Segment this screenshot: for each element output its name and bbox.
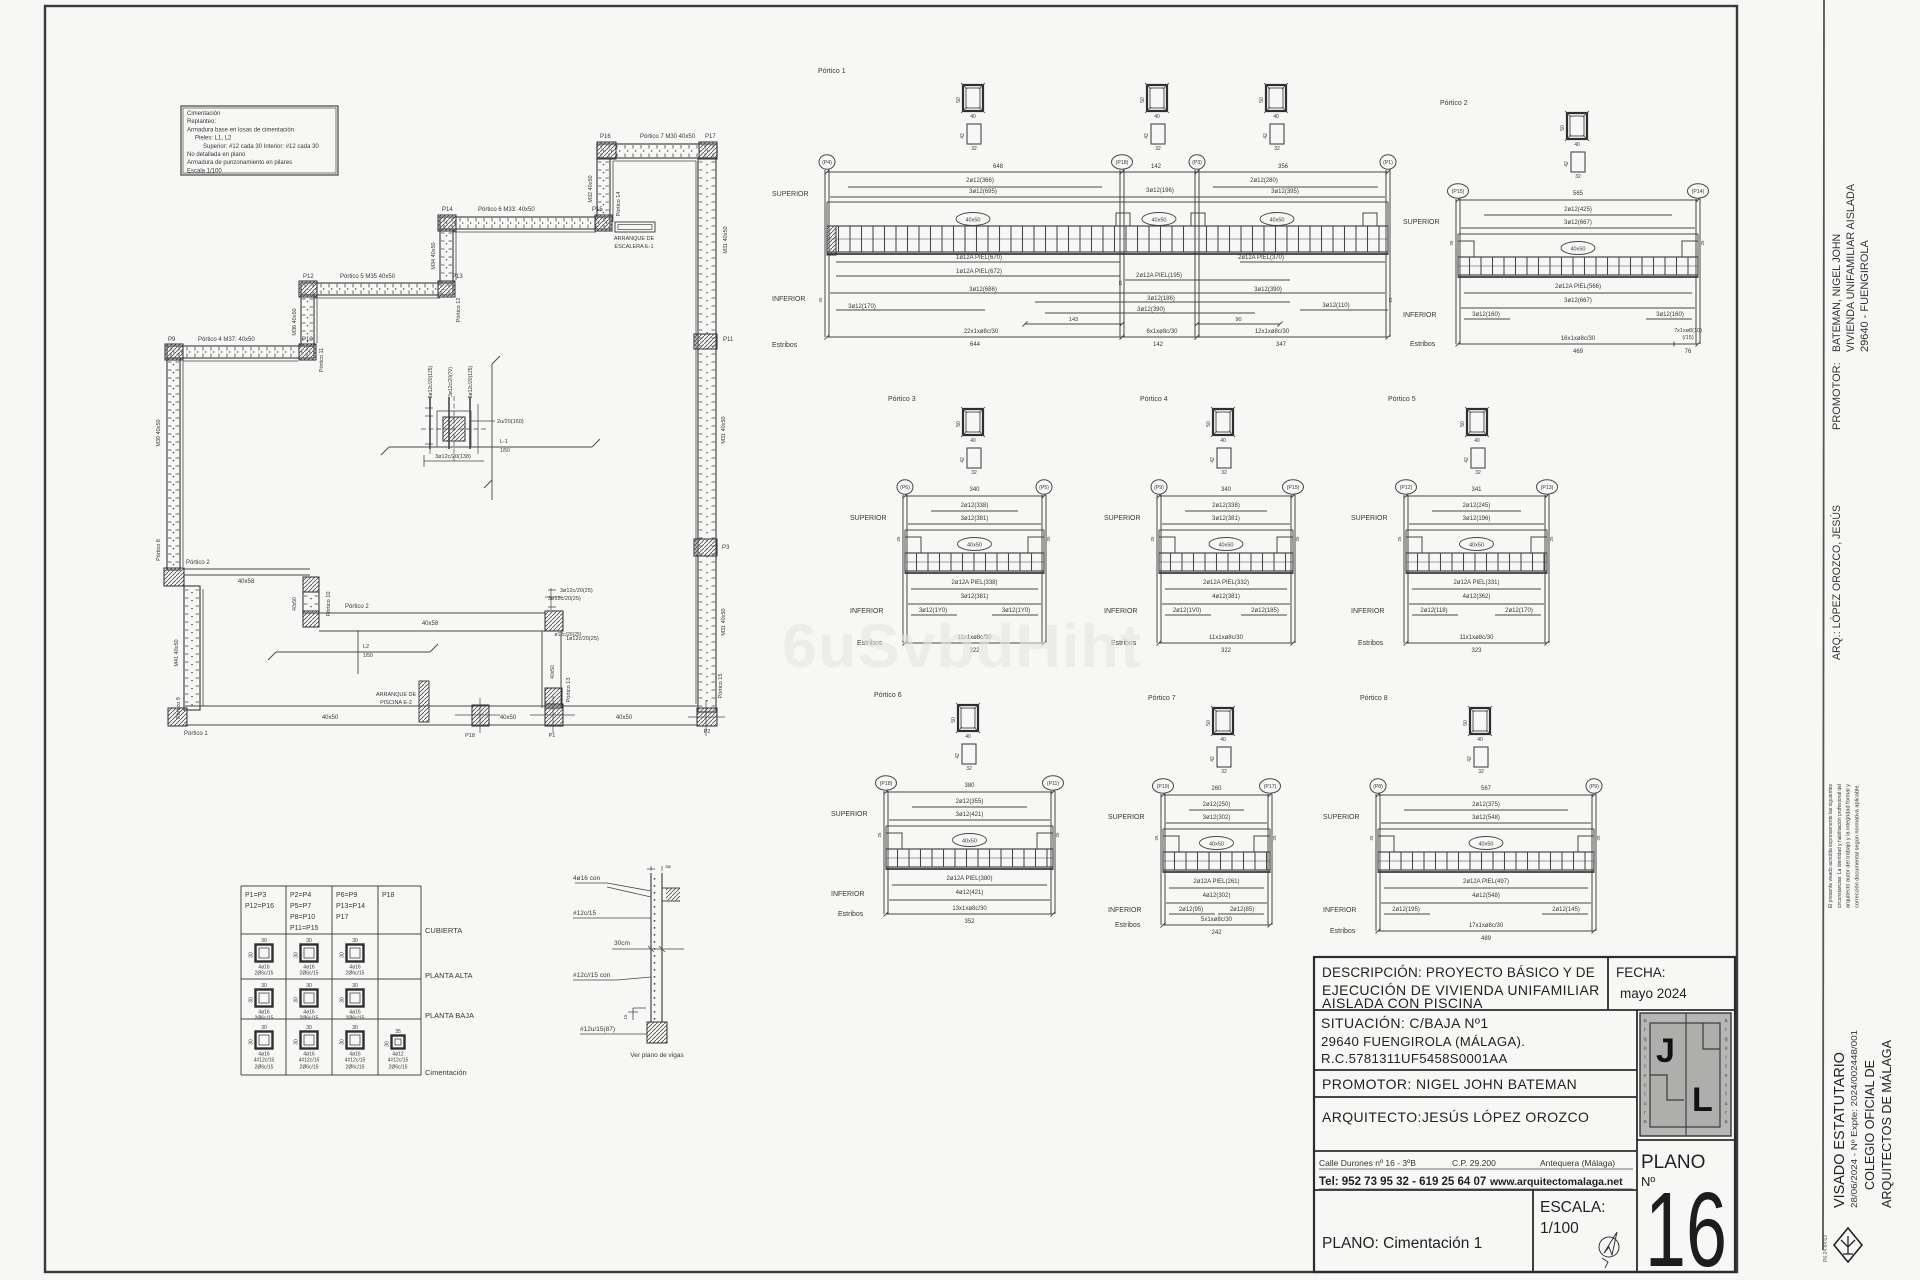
svg-text:(P15): (P15) bbox=[1452, 189, 1465, 195]
svg-text:341: 341 bbox=[1471, 487, 1482, 493]
svg-text:4ø12(381): 4ø12(381) bbox=[1212, 594, 1240, 600]
svg-text:29640 FUENGIROLA (MÁLAGA).: 29640 FUENGIROLA (MÁLAGA). bbox=[1321, 1034, 1525, 1049]
svg-text:CUBIERTA: CUBIERTA bbox=[425, 926, 462, 935]
svg-text:M32 40x50: M32 40x50 bbox=[588, 175, 594, 202]
svg-text:347: 347 bbox=[1276, 342, 1287, 348]
svg-text:Pórtico 13: Pórtico 13 bbox=[566, 678, 572, 703]
svg-text:#12c//15 con: #12c//15 con bbox=[573, 972, 611, 979]
svg-text:25: 25 bbox=[1449, 240, 1454, 246]
svg-text:3ø12(421): 3ø12(421) bbox=[956, 812, 984, 818]
svg-text:40: 40 bbox=[1273, 114, 1279, 120]
svg-text:40x50: 40x50 bbox=[1270, 218, 1285, 224]
svg-text:(P3): (P3) bbox=[1192, 160, 1202, 166]
svg-text:40x58: 40x58 bbox=[238, 579, 255, 585]
svg-text:5x1xø8c/30: 5x1xø8c/30 bbox=[1201, 917, 1233, 923]
svg-text:u: u bbox=[1724, 1046, 1727, 1052]
svg-text:3ø12(170): 3ø12(170) bbox=[848, 304, 876, 310]
svg-text:16: 16 bbox=[1645, 1171, 1727, 1280]
svg-text:40: 40 bbox=[1220, 737, 1226, 743]
svg-text:3ø12(381): 3ø12(381) bbox=[961, 594, 989, 600]
svg-text:30: 30 bbox=[294, 952, 300, 958]
svg-text:22x1xø8c/30: 22x1xø8c/30 bbox=[964, 329, 999, 335]
svg-text:2ø12A PIEL(497): 2ø12A PIEL(497) bbox=[1463, 879, 1509, 885]
svg-text:P18: P18 bbox=[382, 892, 395, 899]
svg-text:ARQ.: LÓPEZ OROZCO, JESÚS: ARQ.: LÓPEZ OROZCO, JESÚS bbox=[1830, 505, 1843, 660]
svg-text:6x1xø8c/30: 6x1xø8c/30 bbox=[1146, 329, 1178, 335]
svg-text:30: 30 bbox=[261, 1025, 267, 1031]
svg-text:40: 40 bbox=[1154, 114, 1160, 120]
svg-text:40x50: 40x50 bbox=[1469, 543, 1484, 549]
svg-text:(P6): (P6) bbox=[900, 485, 910, 491]
svg-text:q: q bbox=[1724, 1036, 1727, 1042]
svg-text:50: 50 bbox=[1140, 97, 1146, 103]
svg-text:50: 50 bbox=[1206, 421, 1212, 427]
svg-text:13x1xø8c/30: 13x1xø8c/30 bbox=[952, 906, 987, 912]
svg-text:El presente visado acredita ex: El presente visado acredita expresamente… bbox=[1828, 784, 1834, 908]
svg-text:AISLADA CON PISCINA: AISLADA CON PISCINA bbox=[1322, 995, 1483, 1011]
svg-text:30: 30 bbox=[352, 1025, 358, 1031]
svg-text:40x50: 40x50 bbox=[500, 715, 517, 721]
svg-text:INFERIOR: INFERIOR bbox=[831, 891, 864, 898]
svg-text:50: 50 bbox=[1460, 421, 1466, 427]
svg-text:32: 32 bbox=[971, 470, 977, 476]
svg-text:2ø12(250): 2ø12(250) bbox=[1203, 802, 1231, 808]
svg-text:Antequera (Málaga): Antequera (Málaga) bbox=[1540, 1158, 1615, 1168]
svg-text:25: 25 bbox=[1596, 835, 1601, 841]
svg-text:Armadura base en losas de cime: Armadura base en losas de cimentación bbox=[187, 127, 294, 133]
svg-text:SUPERIOR: SUPERIOR bbox=[1323, 814, 1360, 821]
svg-text:VIVIENDA UNIFAMILIAR AISLADA: VIVIENDA UNIFAMILIAR AISLADA bbox=[1845, 183, 1857, 352]
svg-text:2ø12A PIEL(566): 2ø12A PIEL(566) bbox=[1555, 284, 1601, 290]
svg-text:Estribos: Estribos bbox=[1358, 640, 1384, 647]
svg-text:260: 260 bbox=[1211, 786, 1222, 792]
svg-text:P12: P12 bbox=[303, 274, 314, 280]
svg-text:Pórtico 14: Pórtico 14 bbox=[616, 192, 622, 217]
svg-text:40x58: 40x58 bbox=[422, 621, 439, 627]
svg-text:3ø12(196): 3ø12(196) bbox=[1146, 188, 1174, 194]
svg-text:Pórtico 11: Pórtico 11 bbox=[319, 348, 325, 372]
svg-text:(P4): (P4) bbox=[822, 160, 832, 166]
svg-text:30: 30 bbox=[294, 997, 300, 1003]
svg-text:arquitecto autor del trabajo y: arquitecto autor del trabajo y la integr… bbox=[1846, 784, 1852, 908]
svg-text:u: u bbox=[1724, 1101, 1727, 1107]
svg-text:42: 42 bbox=[1144, 133, 1150, 139]
svg-text:2u/20(160): 2u/20(160) bbox=[497, 419, 524, 425]
svg-text:Pórtico 5 M35 40x50: Pórtico 5 M35 40x50 bbox=[340, 274, 396, 280]
svg-text:1ø12A PIEL(670): 1ø12A PIEL(670) bbox=[956, 255, 1002, 261]
svg-text:25: 25 bbox=[1154, 835, 1159, 841]
svg-text:COLEGIO OFICIAL DE: COLEGIO OFICIAL DE bbox=[1862, 1060, 1877, 1190]
svg-text:P8=P10: P8=P10 bbox=[290, 914, 315, 921]
svg-text:3ø12c/20(125): 3ø12c/20(125) bbox=[428, 365, 434, 398]
svg-text:32: 32 bbox=[1221, 470, 1227, 476]
svg-text:q: q bbox=[1643, 1036, 1646, 1042]
svg-text:3ø12(110): 3ø12(110) bbox=[1322, 303, 1349, 309]
svg-text:40x50: 40x50 bbox=[962, 839, 977, 845]
svg-text:32: 32 bbox=[1155, 146, 1161, 152]
svg-text:2ø12A PIEL(370): 2ø12A PIEL(370) bbox=[1238, 255, 1284, 261]
svg-text:(P11): (P11) bbox=[1047, 781, 1060, 787]
svg-text:3ø12(196): 3ø12(196) bbox=[1463, 516, 1491, 522]
svg-text:3ø12(186): 3ø12(186) bbox=[1147, 296, 1175, 302]
svg-text:2ø12A PIEL(331): 2ø12A PIEL(331) bbox=[1453, 580, 1499, 586]
svg-text:(P12): (P12) bbox=[1400, 485, 1413, 491]
svg-text:1/50: 1/50 bbox=[363, 653, 373, 659]
svg-text:(P9): (P9) bbox=[1154, 485, 1164, 491]
svg-text:322: 322 bbox=[1221, 648, 1232, 654]
svg-text:M31 40x50: M31 40x50 bbox=[721, 608, 727, 635]
svg-text:30: 30 bbox=[340, 997, 346, 1003]
svg-text:P3: P3 bbox=[722, 545, 730, 551]
svg-text:2ø12A PIEL(380): 2ø12A PIEL(380) bbox=[946, 876, 992, 882]
svg-text:Pórtico 3: Pórtico 3 bbox=[888, 396, 916, 403]
svg-text:Pórtico 4 M37: 40x50: Pórtico 4 M37: 40x50 bbox=[198, 337, 255, 343]
svg-text:3ø12(667): 3ø12(667) bbox=[1564, 220, 1592, 226]
svg-text:r: r bbox=[1644, 1110, 1646, 1116]
svg-text:42: 42 bbox=[1464, 457, 1470, 463]
svg-text:P2: P2 bbox=[704, 729, 711, 735]
svg-text:SUPERIOR: SUPERIOR bbox=[1351, 515, 1388, 522]
svg-text:SUPERIOR: SUPERIOR bbox=[1403, 219, 1440, 226]
svg-text:25: 25 bbox=[818, 297, 823, 303]
svg-text:648: 648 bbox=[993, 164, 1004, 170]
svg-text:SUPERIOR: SUPERIOR bbox=[831, 811, 868, 818]
svg-text:25: 25 bbox=[877, 832, 882, 838]
svg-text:25: 25 bbox=[1549, 536, 1554, 542]
svg-text:P10: P10 bbox=[302, 337, 313, 343]
svg-text:(P19): (P19) bbox=[1157, 784, 1170, 790]
svg-text:3ø12(381): 3ø12(381) bbox=[961, 516, 989, 522]
svg-text:30: 30 bbox=[306, 1025, 312, 1031]
svg-text:P13=P14: P13=P14 bbox=[336, 903, 365, 910]
svg-text:L-1: L-1 bbox=[500, 439, 508, 445]
svg-text:50: 50 bbox=[1259, 97, 1265, 103]
svg-text:M41 40x50: M41 40x50 bbox=[174, 639, 180, 666]
svg-text:567: 567 bbox=[1481, 786, 1492, 792]
svg-text:42: 42 bbox=[1210, 457, 1216, 463]
svg-text:30: 30 bbox=[385, 1041, 391, 1047]
svg-text:VISADO ESTATUTARIO: VISADO ESTATUTARIO bbox=[1831, 1052, 1848, 1208]
svg-text:76: 76 bbox=[1685, 349, 1692, 355]
svg-text:32: 32 bbox=[1221, 769, 1227, 775]
svg-text:P11=P15: P11=P15 bbox=[290, 925, 319, 932]
svg-text:Pórtico 2: Pórtico 2 bbox=[1440, 100, 1468, 107]
svg-text:INFERIOR: INFERIOR bbox=[1351, 608, 1384, 615]
svg-text:Escala 1/100: Escala 1/100 bbox=[187, 168, 222, 174]
svg-text:Pórtico 6: Pórtico 6 bbox=[874, 692, 902, 699]
svg-text:1/100: 1/100 bbox=[1540, 1220, 1579, 1237]
svg-text:142: 142 bbox=[1151, 164, 1162, 170]
svg-text:30: 30 bbox=[249, 997, 255, 1003]
svg-text:PLANO: PLANO bbox=[1641, 1152, 1705, 1173]
svg-text:PLANO: Cimentación 1: PLANO: Cimentación 1 bbox=[1322, 1235, 1482, 1252]
svg-text:3ø12(302): 3ø12(302) bbox=[1203, 815, 1231, 821]
svg-text:M31 40x50: M31 40x50 bbox=[721, 416, 727, 443]
svg-text:Pórtico 5: Pórtico 5 bbox=[1388, 396, 1416, 403]
svg-text:11x1xø8c/30: 11x1xø8c/30 bbox=[1209, 635, 1244, 641]
svg-text:352: 352 bbox=[964, 919, 975, 925]
svg-text:2Ø6c/15: 2Ø6c/15 bbox=[255, 1065, 274, 1071]
svg-text:ARRANQUE DE: ARRANQUE DE bbox=[376, 692, 417, 698]
svg-text:P17: P17 bbox=[705, 134, 716, 140]
svg-text:2ø12A PIEL(332): 2ø12A PIEL(332) bbox=[1203, 580, 1249, 586]
svg-text:30: 30 bbox=[261, 938, 267, 944]
svg-text:469: 469 bbox=[1573, 349, 1584, 355]
svg-text:242: 242 bbox=[1211, 930, 1222, 936]
svg-text:3ø12(686): 3ø12(686) bbox=[969, 287, 997, 293]
svg-text:M34 40x50: M34 40x50 bbox=[431, 242, 437, 269]
svg-text:SUPERIOR: SUPERIOR bbox=[1104, 515, 1141, 522]
svg-text:PLANTA BAJA: PLANTA BAJA bbox=[425, 1011, 474, 1020]
svg-text:DESCRIPCIÓN: PROYECTO BÁSICO Y: DESCRIPCIÓN: PROYECTO BÁSICO Y DE bbox=[1322, 965, 1595, 980]
svg-text:2Ø6c/15: 2Ø6c/15 bbox=[255, 1016, 274, 1022]
svg-text:C.P. 29.200: C.P. 29.200 bbox=[1452, 1158, 1496, 1168]
svg-text:2ø12(1V0): 2ø12(1V0) bbox=[1173, 608, 1201, 614]
svg-text:P6 24 84 63: P6 24 84 63 bbox=[1823, 1235, 1829, 1262]
svg-text:Pórtico 2: Pórtico 2 bbox=[186, 560, 210, 566]
svg-text:L2: L2 bbox=[363, 644, 369, 650]
svg-text:32: 32 bbox=[1575, 174, 1581, 180]
svg-text:2ø12A PIEL(338): 2ø12A PIEL(338) bbox=[951, 580, 997, 586]
svg-text:2ø12(170): 2ø12(170) bbox=[1505, 608, 1533, 614]
svg-text:42: 42 bbox=[960, 133, 966, 139]
svg-text:M36 40x50: M36 40x50 bbox=[292, 308, 298, 335]
svg-text:P14: P14 bbox=[442, 207, 453, 213]
svg-text:6uSvbdHiht: 6uSvbdHiht bbox=[782, 612, 1142, 680]
svg-text:c: c bbox=[1644, 1082, 1647, 1088]
svg-text:2Ø6c/15: 2Ø6c/15 bbox=[346, 1016, 365, 1022]
svg-text:Estribos: Estribos bbox=[1115, 922, 1141, 929]
svg-text:Cimentación: Cimentación bbox=[425, 1068, 467, 1077]
svg-text:Pórtico 1: Pórtico 1 bbox=[184, 731, 208, 737]
svg-text:40x50: 40x50 bbox=[1152, 218, 1167, 224]
svg-text:40x50: 40x50 bbox=[1219, 543, 1234, 549]
svg-text:42: 42 bbox=[1263, 133, 1269, 139]
svg-text:40x50: 40x50 bbox=[967, 543, 982, 549]
svg-text:2Ø6c/15: 2Ø6c/15 bbox=[255, 971, 274, 977]
svg-text:2ø12(145): 2ø12(145) bbox=[1552, 907, 1580, 913]
svg-text:50: 50 bbox=[1463, 720, 1469, 726]
svg-text:Estribos: Estribos bbox=[838, 911, 864, 918]
svg-text:SUPERIOR: SUPERIOR bbox=[772, 191, 809, 198]
svg-text:r: r bbox=[1725, 1110, 1727, 1116]
svg-text:25: 25 bbox=[1118, 280, 1123, 286]
svg-text:(P14): (P14) bbox=[1692, 189, 1705, 195]
svg-text:11x1xø8c/30: 11x1xø8c/30 bbox=[1460, 635, 1495, 641]
svg-text:2ø12(85): 2ø12(85) bbox=[1230, 907, 1254, 913]
svg-text:2Ø6c/15: 2Ø6c/15 bbox=[300, 971, 319, 977]
svg-text:Armadura de punzonamiento en p: Armadura de punzonamiento en pilares bbox=[187, 160, 292, 166]
svg-text:SUPERIOR: SUPERIOR bbox=[1108, 814, 1145, 821]
svg-text:Pórtico 6 M33: 40x50: Pórtico 6 M33: 40x50 bbox=[478, 207, 535, 213]
svg-text:40: 40 bbox=[1574, 142, 1580, 148]
svg-text:P16: P16 bbox=[600, 134, 611, 140]
svg-text:Tel: 952 73 95 32 - 619 25 64: Tel: 952 73 95 32 - 619 25 64 07 bbox=[1319, 1176, 1486, 1188]
svg-text:40x50: 40x50 bbox=[616, 715, 633, 721]
svg-text:565: 565 bbox=[1573, 191, 1584, 197]
svg-text:P1: P1 bbox=[549, 733, 556, 739]
svg-text:40x50: 40x50 bbox=[322, 715, 339, 721]
svg-text:Pórtico 1: Pórtico 1 bbox=[818, 68, 846, 75]
svg-text:circunstancias: La identidad y: circunstancias: La identidad y habilitac… bbox=[1837, 784, 1843, 908]
svg-text:25: 25 bbox=[1295, 536, 1300, 542]
svg-text:90: 90 bbox=[1235, 317, 1241, 323]
svg-text:L: L bbox=[1692, 1081, 1713, 1119]
svg-text:4ø12(362): 4ø12(362) bbox=[1463, 594, 1491, 600]
svg-text:Pórtico 7 M30 40x50: Pórtico 7 M30 40x50 bbox=[640, 134, 696, 140]
svg-text:16x1xø8c/30: 16x1xø8c/30 bbox=[1561, 336, 1596, 342]
svg-text:1ø12A PIEL(672): 1ø12A PIEL(672) bbox=[956, 269, 1002, 275]
svg-text:Pórtico 2: Pórtico 2 bbox=[345, 604, 369, 610]
svg-text:25: 25 bbox=[1397, 536, 1402, 542]
svg-text:323: 323 bbox=[1471, 648, 1482, 654]
svg-text:SUPERIOR: SUPERIOR bbox=[850, 515, 887, 522]
svg-text:7x1xø8(10): 7x1xø8(10) bbox=[1674, 328, 1702, 334]
svg-text:(P15): (P15) bbox=[1287, 485, 1300, 491]
svg-text:4ø12(548): 4ø12(548) bbox=[1472, 893, 1500, 899]
svg-text:ARRANQUE DE: ARRANQUE DE bbox=[614, 236, 655, 242]
svg-text:FECHA:: FECHA: bbox=[1616, 965, 1666, 980]
svg-text:30: 30 bbox=[352, 983, 358, 989]
svg-text:Pórtico 9: Pórtico 9 bbox=[176, 697, 182, 719]
svg-text:P17: P17 bbox=[336, 914, 349, 921]
svg-text:30: 30 bbox=[294, 1039, 300, 1045]
svg-text:mayo 2024: mayo 2024 bbox=[1620, 986, 1687, 1001]
svg-text:4#12c/15: 4#12c/15 bbox=[345, 1058, 366, 1064]
svg-text:2Ø6c/15: 2Ø6c/15 bbox=[300, 1016, 319, 1022]
svg-text:(P18): (P18) bbox=[880, 781, 893, 787]
svg-text:25: 25 bbox=[1055, 832, 1060, 838]
svg-text:Pórtico 8: Pórtico 8 bbox=[1360, 695, 1388, 702]
svg-text:Pórtico 7: Pórtico 7 bbox=[1148, 695, 1176, 702]
svg-text:40: 40 bbox=[965, 734, 971, 740]
svg-text:Pórtico 15: Pórtico 15 bbox=[718, 674, 724, 699]
svg-text:42: 42 bbox=[1467, 756, 1473, 762]
svg-text:Estribos: Estribos bbox=[1330, 928, 1356, 935]
svg-text:40: 40 bbox=[1220, 438, 1226, 444]
svg-text:r: r bbox=[1725, 1027, 1727, 1033]
svg-text:2Ø6c/15: 2Ø6c/15 bbox=[346, 1065, 365, 1071]
svg-text:30: 30 bbox=[340, 1039, 346, 1045]
svg-text:PROMOTOR: NIGEL JOHN BATEMAN: PROMOTOR: NIGEL JOHN BATEMAN bbox=[1322, 1076, 1577, 1092]
svg-text:40: 40 bbox=[1474, 438, 1480, 444]
svg-text:3ø12(390): 3ø12(390) bbox=[1137, 307, 1165, 313]
svg-text:R.C.5781311UF5458S0001AA: R.C.5781311UF5458S0001AA bbox=[1321, 1051, 1508, 1066]
svg-text:P5=P7: P5=P7 bbox=[290, 903, 311, 910]
svg-text:P1=P3: P1=P3 bbox=[245, 892, 266, 899]
svg-text:r: r bbox=[1644, 1027, 1646, 1033]
svg-text:25: 25 bbox=[896, 536, 901, 542]
svg-text:(P5): (P5) bbox=[1039, 485, 1049, 491]
svg-text:3ø12c/20(138): 3ø12c/20(138) bbox=[435, 454, 471, 460]
svg-text:25: 25 bbox=[1272, 835, 1277, 841]
svg-text:P6=P9: P6=P9 bbox=[336, 892, 357, 899]
svg-text:40x50: 40x50 bbox=[966, 218, 981, 224]
svg-text:40: 40 bbox=[1477, 737, 1483, 743]
svg-text:(P1): (P1) bbox=[1383, 160, 1393, 166]
svg-text:50: 50 bbox=[956, 97, 962, 103]
svg-text:30: 30 bbox=[249, 952, 255, 958]
svg-text:15: 15 bbox=[623, 1014, 628, 1020]
svg-text:40x50: 40x50 bbox=[550, 665, 556, 679]
svg-text:4ø12(421): 4ø12(421) bbox=[956, 890, 984, 896]
svg-text:INFERIOR: INFERIOR bbox=[1323, 907, 1356, 914]
svg-text:#12c/15: #12c/15 bbox=[573, 910, 597, 917]
svg-text:P11: P11 bbox=[723, 337, 734, 343]
svg-text:2ø12(366): 2ø12(366) bbox=[966, 178, 994, 184]
svg-text:50: 50 bbox=[1206, 720, 1212, 726]
svg-text:u: u bbox=[1643, 1046, 1646, 1052]
svg-text:28/06/2024 - Nº Expte: 2024/00: 28/06/2024 - Nº Expte: 2024/002448/001 bbox=[1850, 1029, 1859, 1208]
svg-text:i: i bbox=[1725, 1055, 1726, 1061]
svg-text:50: 50 bbox=[956, 421, 962, 427]
svg-text:3ø12c/20(70): 3ø12c/20(70) bbox=[448, 367, 454, 397]
svg-text:25: 25 bbox=[1700, 240, 1705, 246]
svg-text:25: 25 bbox=[1369, 835, 1374, 841]
svg-text:ESCALERA E-1: ESCALERA E-1 bbox=[614, 244, 653, 250]
svg-text:40x50: 40x50 bbox=[1571, 247, 1586, 253]
svg-text:42: 42 bbox=[960, 457, 966, 463]
svg-text:3ø12(160): 3ø12(160) bbox=[1472, 312, 1500, 318]
svg-text:4#12c/15: 4#12c/15 bbox=[299, 1058, 320, 1064]
svg-text:143: 143 bbox=[1069, 317, 1078, 323]
svg-text:40: 40 bbox=[970, 438, 976, 444]
svg-text:i: i bbox=[1644, 1055, 1645, 1061]
svg-text:2ø12(375): 2ø12(375) bbox=[1472, 802, 1500, 808]
svg-text:32: 32 bbox=[1478, 769, 1484, 775]
svg-text:(P17): (P17) bbox=[1264, 784, 1277, 790]
svg-text:BATEMAN, NIGEL JOHN: BATEMAN, NIGEL JOHN bbox=[1831, 234, 1843, 352]
svg-text:40: 40 bbox=[970, 114, 976, 120]
svg-text:3ø12(695): 3ø12(695) bbox=[969, 189, 997, 195]
svg-text:32: 32 bbox=[966, 766, 972, 772]
svg-text:42: 42 bbox=[1564, 161, 1570, 167]
svg-text:2ø12(338): 2ø12(338) bbox=[961, 503, 989, 509]
svg-text:489: 489 bbox=[1481, 936, 1492, 942]
svg-text:40x50: 40x50 bbox=[1209, 842, 1224, 848]
svg-text:2ø12(425): 2ø12(425) bbox=[1564, 207, 1592, 213]
svg-text:4#12c/15: 4#12c/15 bbox=[388, 1058, 409, 1064]
svg-text:Replanteo:: Replanteo: bbox=[187, 119, 216, 125]
svg-text:3ø12c/20(25): 3ø12c/20(25) bbox=[560, 588, 593, 594]
svg-text:Pórtico 12: Pórtico 12 bbox=[456, 298, 462, 323]
svg-text:30: 30 bbox=[261, 983, 267, 989]
svg-text:2ø12(245): 2ø12(245) bbox=[1463, 503, 1491, 509]
svg-text:P12=P16: P12=P16 bbox=[245, 903, 274, 910]
svg-text:ø12c/20(25): ø12c/20(25) bbox=[555, 632, 582, 638]
svg-text:ESCALA:: ESCALA: bbox=[1540, 1199, 1605, 1216]
svg-text:3ø12(395): 3ø12(395) bbox=[1271, 189, 1299, 195]
svg-text:2ø12(280): 2ø12(280) bbox=[1250, 178, 1278, 184]
svg-text:Pieles: L1, L2: Pieles: L1, L2 bbox=[195, 136, 232, 142]
svg-text:INFERIOR: INFERIOR bbox=[772, 296, 805, 303]
svg-text:40x50: 40x50 bbox=[292, 597, 298, 611]
svg-text:3ø12(160): 3ø12(160) bbox=[1656, 312, 1684, 318]
svg-text:Estribos: Estribos bbox=[772, 342, 798, 349]
svg-text:corrección documental según no: corrección documental según normativa ap… bbox=[1854, 784, 1860, 908]
svg-text:644: 644 bbox=[970, 342, 981, 348]
svg-text:2ø12A PIEL(261): 2ø12A PIEL(261) bbox=[1193, 879, 1239, 885]
svg-text:Ver plano de vigas: Ver plano de vigas bbox=[630, 1052, 684, 1059]
svg-text:e: e bbox=[1643, 1073, 1646, 1079]
svg-text:32: 32 bbox=[1475, 470, 1481, 476]
svg-text:17x1xø8c/30: 17x1xø8c/30 bbox=[1469, 923, 1504, 929]
svg-text:25: 25 bbox=[1046, 536, 1051, 542]
svg-text:Estribos: Estribos bbox=[1410, 341, 1436, 348]
svg-text:ARQUITECTO:JESÚS LÓPEZ OROZCO: ARQUITECTO:JESÚS LÓPEZ OROZCO bbox=[1322, 1109, 1589, 1125]
svg-text:30: 30 bbox=[306, 938, 312, 944]
svg-text:340: 340 bbox=[1221, 487, 1232, 493]
